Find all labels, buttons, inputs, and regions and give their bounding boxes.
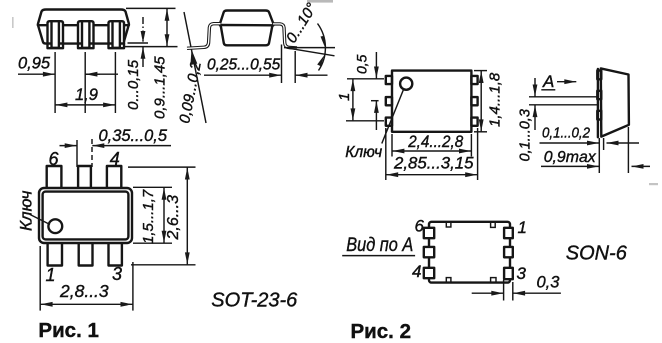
- svg-text:1,4...1,8: 1,4...1,8: [487, 72, 504, 127]
- dim 1,9: [55, 86, 115, 105]
- svg-text:0,35...0,5: 0,35...0,5: [99, 127, 168, 145]
- svg-text:0,5: 0,5: [354, 54, 370, 74]
- body: [392, 71, 471, 132]
- svg-text:Ключ: Ключ: [17, 190, 36, 231]
- side bumps: [597, 71, 601, 80]
- svg-text:Ключ: Ключ: [345, 144, 382, 161]
- svg-text:0,9...1,45: 0,9...1,45: [152, 56, 169, 119]
- lead pin 6 top view: [47, 166, 62, 189]
- svg-text:0,3: 0,3: [537, 274, 561, 292]
- right bumps: [471, 76, 477, 84]
- dim 2,6...3: [128, 167, 196, 265]
- svg-text:0,95: 0,95: [18, 55, 51, 73]
- lead 3 front: [109, 21, 125, 48]
- svg-text:Рис. 1: Рис. 1: [38, 319, 98, 342]
- svg-text:2,6...3: 2,6...3: [165, 195, 182, 241]
- lead 1 front: [48, 21, 64, 48]
- body side outline: [220, 11, 274, 46]
- body front outline: [38, 10, 129, 26]
- svg-text:0...0,15: 0...0,15: [125, 59, 142, 110]
- left pads: [424, 228, 434, 238]
- svg-text:3: 3: [112, 264, 122, 284]
- lead pin 3 top view: [109, 242, 122, 266]
- key leader: [30, 215, 50, 225]
- scan artifact left: [12, 17, 14, 28]
- lead pin 1 top view: [48, 242, 62, 266]
- dim 0,95: [18, 55, 118, 75]
- lead 2 front: [78, 21, 94, 48]
- dim 2,85...3,15: [386, 128, 478, 180]
- dim 2,8...3: [40, 246, 133, 311]
- package profile: [601, 68, 629, 136]
- svg-text:SOT-23-6: SOT-23-6: [211, 288, 298, 311]
- body: [429, 222, 510, 283]
- svg-text:1,5...1,7: 1,5...1,7: [140, 189, 157, 244]
- svg-text:2,8...3: 2,8...3: [59, 281, 109, 301]
- svg-text:1: 1: [518, 218, 527, 237]
- scan artifact right: [649, 183, 658, 185]
- svg-text:3: 3: [517, 264, 527, 283]
- lead pin 4 top view: [107, 166, 121, 189]
- extension lines lead centers: [55, 52, 115, 113]
- dim 1,4...1,8: [474, 71, 504, 132]
- dim 0,25...0,55: [204, 45, 328, 84]
- dim 0,1...0,3: [518, 78, 599, 162]
- svg-text:1,9: 1,9: [75, 86, 98, 104]
- leader + label 0,09...0,2: [176, 12, 206, 125]
- body outline double: [39, 188, 132, 243]
- dim 0,1...0,2: [540, 126, 640, 174]
- left bumps: [386, 76, 392, 84]
- svg-text:1: 1: [336, 93, 353, 101]
- svg-text:0,25...0,55: 0,25...0,55: [207, 57, 281, 74]
- dim 0,9max: [541, 127, 650, 173]
- dim 0,3: [472, 274, 561, 301]
- scan artifact top: [307, 0, 333, 3]
- dim 1: [336, 79, 384, 121]
- dim 0,35...0,5: [60, 127, 172, 167]
- gull-wing lead left: [187, 24, 221, 49]
- svg-text:1: 1: [46, 265, 56, 285]
- angle reference lines: [284, 48, 335, 56]
- svg-text:6: 6: [415, 216, 425, 235]
- svg-text:6: 6: [49, 149, 60, 169]
- svg-text:0,9max: 0,9max: [544, 149, 597, 166]
- dim 0,9...1,45: [126, 8, 176, 119]
- dim 2,4...2,8: [392, 132, 471, 157]
- svg-text:0,1...0,2: 0,1...0,2: [542, 126, 590, 142]
- lead pin 5 top view: [78, 166, 91, 189]
- key leader fig2: [382, 90, 404, 144]
- lead pin 2 top view: [79, 242, 93, 266]
- svg-text:2,85...3,15: 2,85...3,15: [393, 154, 474, 173]
- key circle fig2: [400, 78, 412, 90]
- svg-text:4: 4: [110, 149, 120, 169]
- svg-text:Вид по А: Вид по А: [346, 234, 413, 256]
- dim 0,5: [354, 52, 379, 130]
- svg-text:2,4...2,8: 2,4...2,8: [407, 132, 463, 151]
- bottom edge bumps: [446, 278, 451, 283]
- top edge bumps: [446, 222, 451, 227]
- svg-text:А: А: [542, 72, 554, 91]
- key circle: [48, 219, 62, 233]
- dim 1,5...1,7: [133, 187, 172, 244]
- svg-text:4: 4: [412, 262, 421, 281]
- angle arc 0...10: [283, 0, 325, 70]
- svg-text:SON-6: SON-6: [566, 241, 628, 264]
- gull-wing lead right: [273, 24, 297, 48]
- svg-text:Рис. 2: Рис. 2: [351, 320, 411, 343]
- svg-text:0,1...0,3: 0,1...0,3: [518, 109, 534, 161]
- view label Vid po A: [342, 234, 415, 256]
- right pads: [504, 228, 513, 238]
- dim 0...0,15: [124, 17, 178, 110]
